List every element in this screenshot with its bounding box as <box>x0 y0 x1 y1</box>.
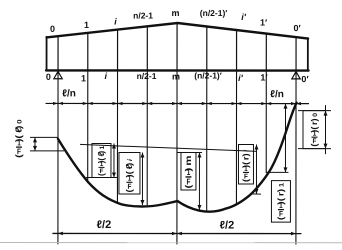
top chord <box>47 23 309 39</box>
half reference line <box>80 144 257 151</box>
svg-text:(n/2-1)′: (n/2-1)′ <box>194 71 222 81</box>
svg-text:): ) <box>309 118 319 121</box>
panel vertical i <box>117 30 119 71</box>
svg-text:F: F <box>17 146 21 156</box>
svg-text:i: i <box>127 158 133 161</box>
svg-text:0: 0 <box>50 24 55 34</box>
dimension box (1/F)m <box>177 153 202 211</box>
grid vertical (n/2-1)' <box>206 71 208 212</box>
grid vertical n/2-1 <box>146 70 148 206</box>
label (1/F)(r)0 <box>309 113 319 147</box>
svg-text:i: i <box>244 150 251 152</box>
datum arrowheads <box>53 102 301 105</box>
label (1/F)(l)0 <box>14 119 24 157</box>
panel vertical 0' <box>295 37 297 70</box>
label (1/F)(r)i <box>241 150 250 182</box>
svg-text:0: 0 <box>15 119 23 123</box>
svg-text:m: m <box>172 8 180 18</box>
svg-text:): ) <box>276 189 285 192</box>
panel vertical (n/2-1)' <box>206 27 208 71</box>
svg-text:n/2-1: n/2-1 <box>133 10 153 20</box>
svg-text:)(: )( <box>241 162 250 168</box>
svg-text:m: m <box>172 72 180 82</box>
svg-text:): ) <box>125 163 134 166</box>
grid vertical m extension <box>176 71 178 244</box>
svg-text:1: 1 <box>99 145 106 149</box>
scan streak bottom <box>0 241 342 243</box>
grid vertical 0 extension <box>57 70 59 243</box>
svg-text:m: m <box>184 155 193 165</box>
svg-text:)(: )( <box>309 127 319 133</box>
dimension box (1/F)(l)i <box>119 152 143 205</box>
panel vertical i' <box>236 30 238 70</box>
svg-text:(n/2-1)′: (n/2-1)′ <box>200 8 228 18</box>
svg-text:1: 1 <box>84 20 89 30</box>
dimension (1/F)(l)0 left outer <box>30 137 64 151</box>
dimension box (1/F)(r)i <box>238 145 261 195</box>
svg-text:0: 0 <box>312 113 319 117</box>
label (1/F)m <box>184 155 193 188</box>
deflection curve <box>58 102 297 211</box>
bottom panel labels <box>46 70 309 84</box>
svg-text:)(: )( <box>96 158 106 164</box>
svg-text:0: 0 <box>46 72 51 82</box>
svg-text:): ) <box>241 153 250 156</box>
panel vertical n/2-1 <box>146 26 148 70</box>
panel vertical 1' <box>265 34 267 71</box>
dimension box (1/F)(l)1 <box>86 143 117 177</box>
svg-text:n/2-1: n/2-1 <box>137 71 157 81</box>
svg-text:F: F <box>313 138 317 145</box>
grid vertical i <box>116 70 118 203</box>
panel vertical 1 <box>87 33 89 70</box>
svg-text:1: 1 <box>278 183 285 187</box>
svg-text:): ) <box>14 126 24 130</box>
top panel labels <box>50 8 301 34</box>
svg-text:1′: 1′ <box>260 18 267 28</box>
svg-text:0′: 0′ <box>293 23 300 33</box>
right support triangle <box>292 72 300 79</box>
l/2 dimension line <box>53 232 301 234</box>
panel vertical m <box>176 23 178 70</box>
svg-text:1: 1 <box>81 73 86 83</box>
svg-text:): ) <box>96 151 106 154</box>
label (1/F)(l)i <box>125 158 134 193</box>
dimension (1/F)(r)1 <box>266 104 290 223</box>
l/2 dimension arrowheads <box>58 232 296 236</box>
svg-text:)(: )( <box>14 134 24 142</box>
left support triangle <box>54 71 62 78</box>
svg-text:r: r <box>276 192 285 196</box>
svg-text:ℓ/n: ℓ/n <box>62 88 76 99</box>
grid vertical 0' extension <box>295 71 297 244</box>
svg-text:): ) <box>184 168 193 172</box>
right end post <box>307 38 309 70</box>
svg-text:ℓ/2: ℓ/2 <box>97 219 112 231</box>
svg-text:F: F <box>127 184 132 192</box>
svg-text:ℓ/n: ℓ/n <box>270 89 284 100</box>
label (1/F)(r)1 <box>276 183 285 220</box>
svg-text:)(: )( <box>125 170 134 178</box>
label (1/F)(l)1 <box>96 145 106 176</box>
grid vertical 1 <box>87 70 89 180</box>
datum line <box>46 102 308 104</box>
panel vertical 0 <box>57 36 59 70</box>
svg-text:F: F <box>244 173 248 180</box>
dimension box (1/F)(r)0 right outer <box>298 105 331 154</box>
svg-text:ℓ/2: ℓ/2 <box>220 220 235 232</box>
grid vertical 1' <box>265 71 267 173</box>
bottom chord <box>46 69 308 72</box>
svg-text:1′: 1′ <box>260 73 267 83</box>
svg-text:F: F <box>279 210 283 219</box>
svg-text:0′: 0′ <box>301 74 308 84</box>
svg-text:F: F <box>100 168 104 175</box>
grid vertical i' <box>235 71 237 205</box>
svg-text:)(: )( <box>276 197 285 205</box>
left end post <box>46 37 48 71</box>
svg-text:F: F <box>187 177 191 187</box>
